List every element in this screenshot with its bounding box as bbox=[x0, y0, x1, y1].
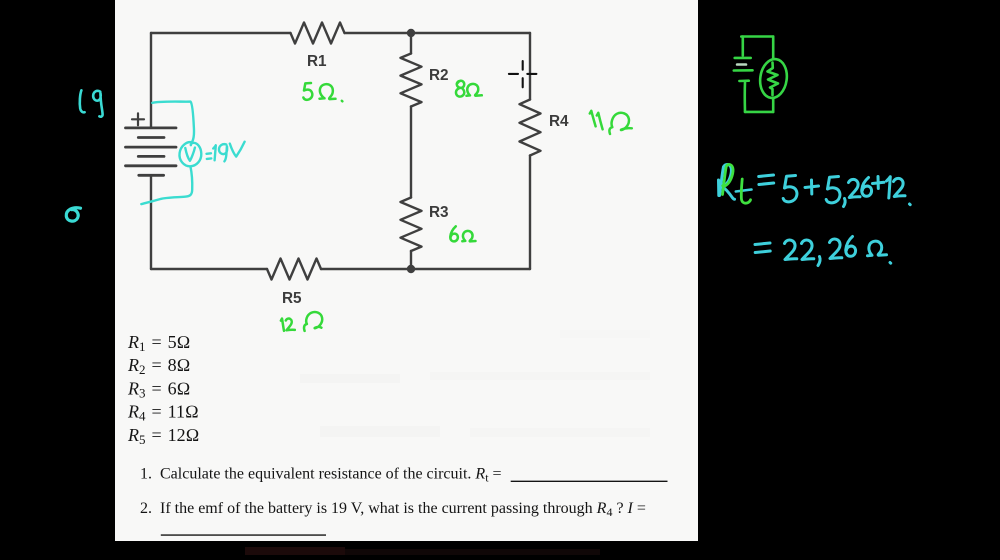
equation line 2: 2 (third) bbox=[830, 239, 842, 259]
svg-text:R3: R3 bbox=[429, 204, 449, 221]
svg-text:R5 = 12Ω: R5 = 12Ω bbox=[127, 425, 199, 447]
wire: top, from R1 to node A bbox=[345, 32, 412, 34]
resistor R2 bbox=[401, 54, 422, 107]
sketch: lamp circle bbox=[758, 57, 790, 99]
svg-text:R4 = 11Ω: R4 = 11Ω bbox=[127, 402, 199, 424]
equation Rt: subscript t crossbar bbox=[736, 190, 752, 192]
equation: 2 (of 12) bbox=[894, 178, 906, 196]
equation: plus 2 bbox=[873, 177, 885, 189]
equation line 2: comma bbox=[818, 257, 820, 266]
annotation =19V: equals sign bbox=[207, 153, 212, 159]
value label 6 ohm (R3) bbox=[450, 226, 458, 241]
equation: 5 bbox=[783, 176, 797, 202]
wire: bottom, left segment to R5 bbox=[151, 268, 267, 270]
voltmeter circle bbox=[179, 142, 201, 166]
mouse crosshair cursor bbox=[509, 61, 537, 87]
svg-text:R3 = 6Ω: R3 = 6Ω bbox=[127, 379, 190, 401]
handwritten sigma/zero (left black margin) bbox=[66, 208, 80, 221]
wire: middle branch from node A to R2 bbox=[410, 33, 412, 54]
equation: comma bbox=[844, 199, 846, 207]
equation: 1 (of 12) bbox=[887, 177, 891, 198]
sketch: battery plate 1 (long) bbox=[735, 57, 751, 60]
battery B1 plate 2 (short) bbox=[138, 136, 164, 139]
svg-text:R1: R1 bbox=[307, 53, 327, 70]
wire: right branch lower (R4 to bottom-right corner) bbox=[529, 156, 531, 270]
svg-text:R4: R4 bbox=[549, 113, 569, 130]
node A (junction dot, top) bbox=[407, 29, 415, 37]
svg-text:R2 = 8Ω: R2 = 8Ω bbox=[127, 355, 190, 377]
equation: plus 1 bbox=[805, 180, 819, 194]
sketch: right wire upper bbox=[772, 37, 775, 59]
svg-text:R1 = 5Ω: R1 = 5Ω bbox=[127, 332, 190, 354]
svg-text:R5: R5 bbox=[282, 290, 302, 307]
battery B1 plate 4 (short) bbox=[138, 155, 164, 158]
sketch: battery cell left wire lower bbox=[743, 83, 746, 112]
wire: left branch lower (battery - plate down to bottom-left corner) bbox=[150, 175, 152, 269]
annotation =19V: digit 1 bbox=[213, 145, 216, 160]
white worksheet page bbox=[115, 0, 698, 541]
equation: 6 bbox=[862, 178, 872, 197]
handwritten 19 (left black margin) bbox=[80, 90, 85, 112]
question 2 answer blank line bbox=[161, 534, 326, 536]
resistor R3 bbox=[401, 198, 422, 252]
battery B1 plate 5 (long) bbox=[126, 164, 177, 167]
annotation =19V: letter V bbox=[230, 142, 245, 157]
equation line 2: 2 bbox=[785, 240, 797, 260]
wire: middle branch from R3 to node B bbox=[410, 251, 412, 269]
question 1 answer blank line bbox=[511, 480, 668, 482]
equation: equals sign 1 bbox=[759, 175, 774, 185]
resistor R1 bbox=[291, 23, 345, 44]
wire: top, from node A to top-right corner bbox=[411, 32, 530, 34]
sketch: battery plate 2 (short) bbox=[737, 63, 746, 66]
wire: right branch upper (top-right corner to R4) bbox=[529, 33, 531, 100]
sketch: right wire lower bbox=[772, 99, 775, 112]
wire: bottom, from node B to bottom-right corner bbox=[411, 268, 530, 270]
resistor R5 bbox=[267, 259, 321, 280]
equation line 2: 6 bbox=[846, 237, 856, 257]
battery B1 plus sign bbox=[132, 113, 144, 125]
voltmeter lead wire (bottom, meter to battery) bbox=[141, 167, 192, 204]
value label 11 ohm (R4) bbox=[590, 111, 596, 127]
equation: trailing dot bbox=[908, 203, 912, 207]
value label 12 ohm (R5) bbox=[281, 319, 284, 331]
equation Rt: letter R (cyan stem bar) bbox=[717, 180, 720, 196]
value label 8 ohm (R2) bbox=[456, 81, 464, 97]
equation: 5 (second) bbox=[826, 177, 840, 203]
equation line 2: omega bbox=[868, 241, 887, 256]
battery B1 plate 1 (long) bbox=[126, 127, 177, 130]
sketch: battery plate 4 (short) bbox=[739, 79, 748, 82]
node B (junction dot, bottom) bbox=[407, 265, 415, 273]
voltmeter V letter bbox=[185, 148, 195, 161]
equation: 2 bbox=[849, 179, 861, 197]
value label 5 ohm (R1) bbox=[303, 83, 312, 100]
voltmeter lead wire (top, battery to meter) bbox=[152, 102, 194, 142]
battery B1 plate 3 (long) bbox=[126, 146, 177, 149]
sketch: lamp zigzag filament bbox=[768, 63, 779, 96]
sketch: battery cell left wire upper bbox=[741, 37, 744, 56]
svg-text:2. If the emf of the battery: 2. If the emf of the battery is 19 V, wh… bbox=[140, 500, 646, 519]
sketch: battery plate 3 (long) bbox=[734, 69, 753, 72]
wire: middle branch between R2 and R3 bbox=[410, 107, 412, 198]
resistor R4 bbox=[520, 100, 541, 156]
equation line 2: 2 (second) bbox=[802, 240, 814, 260]
sketch: battery cell top wire bbox=[741, 35, 773, 38]
sketch: bottom wire bbox=[745, 111, 773, 114]
equation Rt: letter R green overlay on loop bbox=[723, 164, 734, 194]
annotation =19V: digit 9 bbox=[219, 144, 227, 161]
equation Rt: subscript t (green stem with hook) bbox=[741, 179, 750, 203]
equation line 2: equals sign bbox=[755, 243, 770, 253]
equation line 2: trailing dot bbox=[889, 261, 893, 265]
svg-text:R2: R2 bbox=[429, 67, 449, 84]
wire: left branch upper (top corner down to battery + plate) bbox=[150, 33, 152, 128]
wire: top, left segment from battery top corner to R1 bbox=[151, 32, 291, 34]
equation Rt: letter R (cyan loop and leg) bbox=[720, 165, 735, 200]
wire: bottom, from R5 to node B bbox=[321, 268, 411, 270]
svg-text:1. Calculate the equivalent r: 1. Calculate the equivalent resistance o… bbox=[140, 466, 502, 485]
battery B1 plate 6 (short) bbox=[139, 174, 164, 177]
